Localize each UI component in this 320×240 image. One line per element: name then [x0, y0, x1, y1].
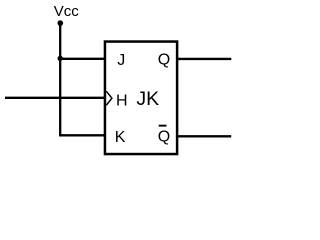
svg-text:H: H [116, 93, 128, 110]
svg-text:Q: Q [158, 52, 170, 69]
svg-text:Q: Q [158, 129, 170, 146]
svg-text:Vcc: Vcc [54, 3, 80, 20]
svg-text:K: K [115, 129, 126, 146]
svg-text:J: J [117, 52, 125, 69]
svg-text:JK: JK [136, 88, 159, 110]
